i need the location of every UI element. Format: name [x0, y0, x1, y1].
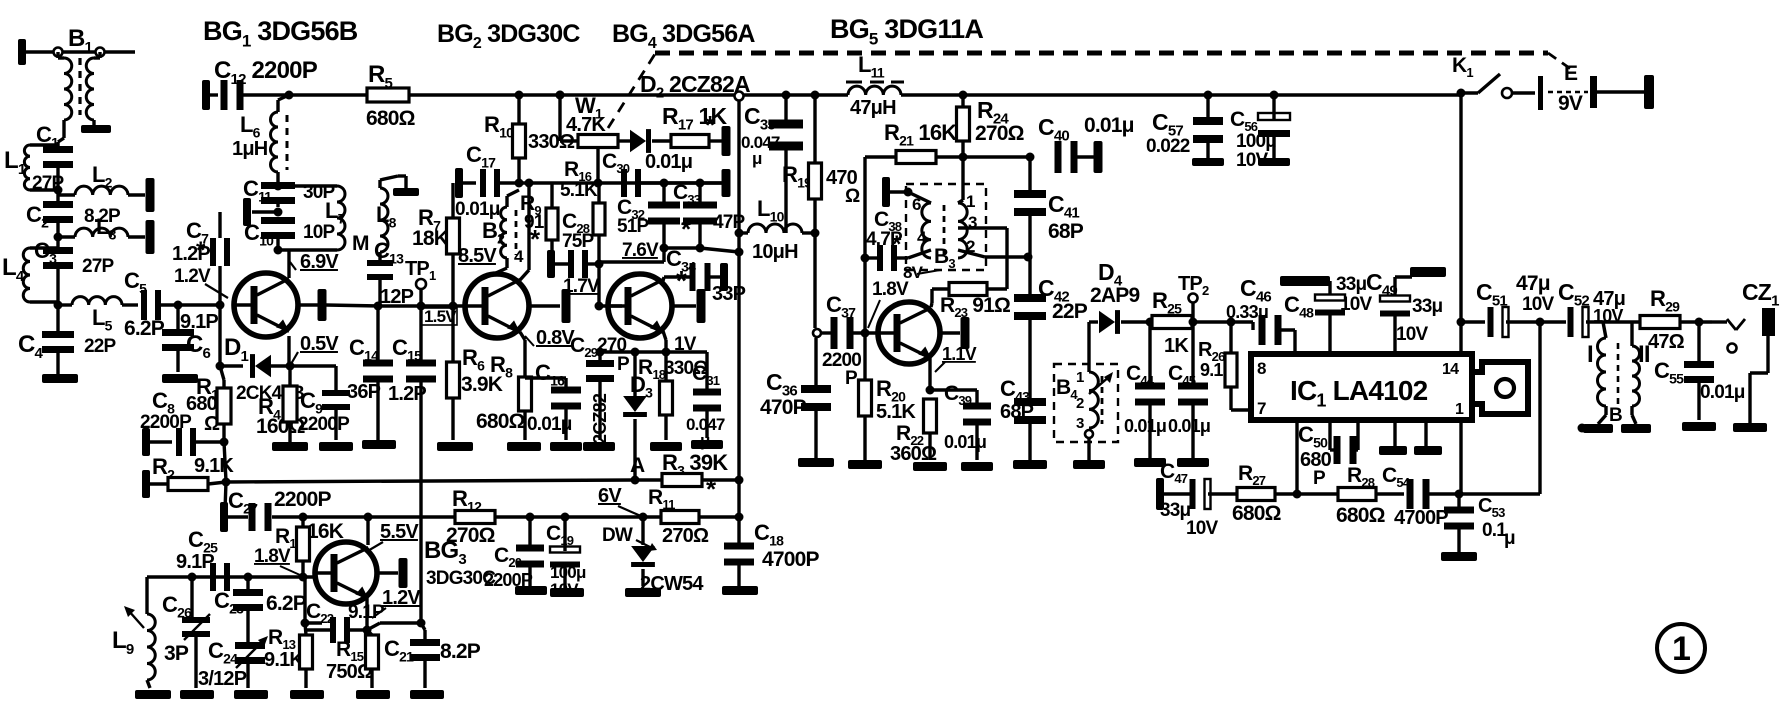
audio output wire — [1457, 318, 1466, 327]
svg-text:22P: 22P — [1052, 300, 1088, 323]
svg-text:270Ω: 270Ω — [662, 525, 709, 547]
tank bottom wire — [278, 248, 337, 251]
svg-text:9V: 9V — [1558, 92, 1583, 115]
B3 primary coil — [922, 203, 931, 258]
svg-text:4: 4 — [917, 228, 927, 247]
svg-text:270Ω: 270Ω — [446, 524, 495, 547]
svg-text:7: 7 — [1257, 399, 1266, 418]
node C32 C33 bottom — [660, 244, 669, 253]
BG5 collector wire — [931, 303, 932, 307]
BG5 emitter wire — [928, 358, 931, 390]
svg-text:2200P: 2200P — [298, 414, 350, 435]
svg-text:16K: 16K — [307, 520, 344, 543]
svg-text:0.01μ: 0.01μ — [1168, 416, 1210, 436]
svg-text:8: 8 — [1257, 359, 1266, 378]
svg-text:BG1 3DG56B: BG1 3DG56B — [203, 16, 358, 51]
ground under R8 — [507, 442, 541, 451]
svg-text:R21 16K: R21 16K — [884, 120, 957, 148]
svg-text:C12 2200P: C12 2200P — [214, 57, 318, 88]
ground under C4 — [42, 374, 78, 383]
svg-text:10V: 10V — [1396, 324, 1429, 345]
ground under R6 — [437, 442, 473, 451]
emitter row wire — [600, 350, 707, 353]
svg-text:BG2 3DG30C: BG2 3DG30C — [437, 20, 580, 52]
BG4 case terminal — [672, 304, 696, 307]
ground under C21 — [410, 690, 444, 699]
node R14 top — [299, 513, 308, 522]
svg-text:5.1K: 5.1K — [876, 401, 916, 423]
svg-text:1.8V: 1.8V — [254, 546, 291, 567]
ground under C57 — [1192, 158, 1224, 166]
node base wire C6 — [174, 301, 183, 310]
node L4/L5 — [54, 301, 63, 310]
svg-text:18K: 18K — [412, 227, 449, 250]
svg-text:1.1V: 1.1V — [942, 344, 977, 364]
ground under C18 — [722, 586, 758, 595]
svg-text:680Ω: 680Ω — [1336, 504, 1385, 527]
B3 terminal bar — [882, 177, 890, 207]
main supply rail — [455, 93, 848, 97]
BG4 collector wire — [663, 277, 664, 281]
ground under C39 — [961, 462, 993, 471]
feedback wire row — [305, 621, 322, 624]
node C19 top — [561, 513, 570, 522]
base wire BG3 — [147, 575, 314, 578]
svg-text:6.2P: 6.2P — [266, 592, 307, 615]
wire BG1 to C14 row — [326, 305, 380, 306]
node rail x739 — [735, 92, 744, 101]
ground under C20 — [515, 586, 547, 595]
transformer B4 dashed box — [1054, 364, 1118, 442]
ground under C45 — [1177, 458, 1209, 467]
svg-text:6.9V: 6.9V — [300, 251, 339, 273]
ground under C14 — [362, 440, 396, 449]
IC ground pins — [1393, 420, 1396, 446]
svg-text:9.1P: 9.1P — [176, 551, 214, 573]
svg-text:0.01μ: 0.01μ — [1700, 382, 1745, 403]
ground under R20 — [848, 460, 882, 469]
svg-text:1K: 1K — [1164, 335, 1189, 357]
node BG5 base junction — [813, 329, 821, 337]
svg-text:1: 1 — [1076, 369, 1084, 386]
node C11 C10 — [274, 208, 283, 217]
B3 pin2 wire — [958, 250, 985, 257]
ground under C16 — [550, 442, 582, 451]
svg-text:IC1 LA4102: IC1 LA4102 — [1290, 375, 1428, 411]
svg-text:DW: DW — [602, 525, 633, 546]
svg-text:33μ: 33μ — [1412, 296, 1443, 317]
svg-text:9.1K: 9.1K — [194, 455, 234, 477]
svg-text:μ: μ — [752, 149, 762, 168]
node tank top — [274, 182, 283, 191]
long vertical C15 to oscillator — [419, 306, 422, 366]
ground under C55 — [1682, 422, 1716, 431]
ground under C9 — [319, 442, 353, 451]
svg-text:4: 4 — [514, 247, 524, 266]
emitter wire BG1 — [287, 336, 290, 366]
svg-text:0.01μ: 0.01μ — [1124, 416, 1166, 436]
IC1 LA4102 box — [1251, 354, 1472, 420]
feedback vertical — [303, 577, 306, 623]
svg-text:2CZ82: 2CZ82 — [590, 393, 610, 444]
wire IF row y183 — [497, 181, 726, 184]
base vertical BG4 — [597, 264, 600, 306]
transistor BG3 — [315, 542, 377, 604]
svg-text:75P: 75P — [562, 231, 595, 252]
oscillator feed wire row — [228, 515, 248, 518]
emitter to C21 wire — [367, 623, 380, 630]
svg-text:Ω: Ω — [845, 186, 860, 207]
svg-text:BG5 3DG11A: BG5 3DG11A — [830, 14, 983, 49]
long vertical feed x739 — [737, 101, 740, 517]
svg-text:33P: 33P — [712, 283, 746, 305]
svg-text:1: 1 — [966, 192, 975, 211]
wire R21 to C40 — [963, 155, 1030, 158]
node BG3 collector top — [364, 513, 373, 522]
svg-text:P: P — [617, 354, 630, 375]
ground right output — [1733, 423, 1767, 432]
svg-text:47Ω: 47Ω — [1648, 331, 1685, 353]
collector wire BG1 — [287, 250, 290, 278]
svg-text:A: A — [630, 454, 645, 477]
svg-text:0.022: 0.022 — [1146, 136, 1190, 157]
svg-text:*: * — [676, 265, 687, 296]
svg-text:8.2P: 8.2P — [440, 640, 481, 663]
B4 top wire to D4 — [1087, 322, 1090, 372]
BG5 case terminal — [940, 331, 960, 334]
node C7 base — [216, 301, 225, 310]
ground under R15 — [356, 690, 390, 699]
node TP1 base — [417, 302, 426, 311]
node C26 branch — [188, 573, 197, 582]
ground under B1 — [81, 125, 111, 133]
ground under B5 primary — [1583, 424, 1613, 433]
svg-text:14: 14 — [1442, 361, 1459, 378]
wire base row BG2 — [380, 304, 465, 307]
speaker wire — [1712, 320, 1727, 323]
svg-text:7.6V: 7.6V — [622, 240, 659, 261]
node R1 C8 — [220, 438, 229, 447]
transistor BG1 — [234, 273, 298, 337]
node C23 branch — [244, 573, 253, 582]
svg-text:27P: 27P — [82, 256, 115, 277]
svg-text:6V: 6V — [598, 485, 622, 507]
transistor BG5 — [878, 302, 940, 364]
svg-text:33μ: 33μ — [1336, 274, 1367, 295]
ground under C6 — [162, 374, 198, 383]
ground under R4 — [272, 442, 308, 451]
svg-text:1.7V: 1.7V — [563, 276, 600, 297]
svg-text:10V: 10V — [1522, 294, 1555, 315]
B3 secondary coil — [958, 203, 967, 258]
svg-text:P: P — [845, 368, 858, 389]
B3 core — [943, 205, 946, 256]
svg-text:*: * — [196, 237, 206, 264]
node DW top — [639, 513, 648, 522]
svg-text:4.7K: 4.7K — [566, 114, 606, 136]
svg-text:M: M — [352, 232, 369, 255]
svg-text:47μH: 47μH — [850, 97, 896, 119]
IC heatsink tab — [1472, 362, 1528, 414]
wire emitter to C9 — [290, 364, 336, 367]
ground under C53 — [1441, 552, 1477, 561]
ground under C44 — [1134, 458, 1166, 467]
BG3 emitter wire — [365, 598, 368, 630]
svg-text:8.5V: 8.5V — [458, 245, 497, 267]
ground under R13 — [290, 690, 324, 699]
svg-text:3P: 3P — [164, 642, 189, 665]
R21 left vertical — [863, 157, 866, 333]
B4 core dashed — [1101, 376, 1104, 424]
supply vertical to IC pin14 — [1459, 93, 1462, 354]
svg-text:10P: 10P — [303, 222, 336, 243]
ground under C29 — [583, 442, 615, 451]
BG2 emitter wire — [520, 332, 525, 340]
svg-text:1.2V: 1.2V — [382, 587, 421, 609]
wire C32 to BG4 base — [662, 248, 665, 262]
B4 tuning arrow — [1089, 376, 1110, 394]
ground under R18 — [650, 442, 682, 451]
B3 pin3 wire — [958, 226, 1007, 229]
B4 bottom pin — [1085, 430, 1093, 438]
svg-text:68P: 68P — [1048, 220, 1084, 243]
BG3 case terminal — [377, 571, 398, 574]
wire to oscillator line — [700, 248, 739, 252]
BG3 collector wire — [366, 517, 369, 545]
svg-text:0.01μ: 0.01μ — [645, 151, 692, 173]
svg-text:5.1K: 5.1K — [560, 180, 598, 201]
svg-text:1: 1 — [1455, 401, 1464, 418]
svg-text:3/12P: 3/12P — [198, 668, 247, 690]
transformer B3 dashed box — [906, 184, 986, 270]
transistor BG4 — [608, 274, 672, 338]
svg-text:4700P: 4700P — [1394, 507, 1448, 529]
L8 top terminal — [393, 188, 419, 196]
node R7 base BG2 — [449, 302, 458, 311]
AGC wire row — [226, 480, 635, 482]
svg-text:51P: 51P — [617, 216, 650, 237]
node C20 top — [526, 513, 535, 522]
B4 coil — [1089, 372, 1098, 428]
svg-text:2: 2 — [1076, 395, 1084, 412]
wire C53 node up — [1459, 492, 1540, 495]
ground under R22 — [913, 462, 947, 471]
ground under C31 — [691, 440, 723, 449]
svg-text:270Ω: 270Ω — [975, 122, 1024, 145]
ground under C26 — [180, 690, 214, 699]
svg-text:3: 3 — [1076, 415, 1084, 432]
svg-text:B: B — [1609, 405, 1622, 426]
C41 C42 C43 vertical — [1028, 157, 1031, 192]
svg-text:I: I — [1587, 341, 1593, 368]
node rail L6 — [285, 91, 294, 100]
ground under B4 — [1073, 460, 1105, 469]
svg-text:0.01μ: 0.01μ — [455, 199, 500, 220]
svg-text:470P: 470P — [760, 396, 807, 419]
node rail x815 — [811, 91, 820, 100]
ground under C36 — [798, 458, 834, 467]
ground under C43 — [1013, 460, 1047, 469]
BG4 emitter wire — [663, 331, 666, 340]
node L1/C2 — [54, 186, 63, 195]
svg-text:E: E — [1564, 62, 1578, 85]
svg-text:P: P — [1313, 468, 1326, 489]
ground under C56 — [1258, 158, 1290, 166]
svg-text:0.01μ: 0.01μ — [944, 432, 986, 452]
BG1 case terminal — [298, 303, 318, 306]
page mark circled 1 — [1657, 624, 1705, 672]
dashed AGC line — [608, 54, 655, 128]
svg-text:1.2P: 1.2P — [172, 243, 210, 265]
detector wire row — [1089, 320, 1098, 323]
W1 wiper wire — [596, 148, 599, 183]
B3 pin1 wire from R24 — [958, 200, 963, 203]
svg-text:BG4 3DG56A: BG4 3DG56A — [612, 20, 755, 52]
svg-text:4700P: 4700P — [762, 548, 820, 571]
tank top wire — [278, 184, 337, 187]
svg-text:5.5V: 5.5V — [380, 521, 419, 543]
ground under DW — [625, 588, 661, 597]
svg-text:36P: 36P — [347, 381, 381, 403]
svg-text:0.01μ: 0.01μ — [1084, 114, 1134, 137]
ground under C24 — [234, 690, 268, 699]
svg-text:47P: 47P — [713, 212, 746, 233]
transistor BG2 — [465, 274, 529, 338]
wire B1 to tank — [58, 138, 64, 142]
BG2 collector wire — [520, 270, 529, 280]
svg-text:1: 1 — [1672, 630, 1690, 668]
node C51 C52 — [1536, 318, 1545, 327]
svg-text:47μ: 47μ — [1516, 272, 1550, 295]
svg-text:R23 91Ω: R23 91Ω — [940, 294, 1010, 320]
svg-text:1μH: 1μH — [232, 138, 268, 160]
svg-text:0.5V: 0.5V — [300, 333, 339, 355]
svg-text:1.8V: 1.8V — [872, 279, 909, 300]
svg-text:10μH: 10μH — [752, 241, 798, 263]
svg-text:22P: 22P — [84, 336, 117, 357]
volume line into IC — [1230, 320, 1253, 323]
svg-text:6.2P: 6.2P — [124, 317, 165, 340]
svg-text:μ: μ — [1504, 528, 1515, 549]
svg-text:680Ω: 680Ω — [366, 107, 415, 130]
ground under C19 — [550, 588, 584, 597]
svg-text:680Ω: 680Ω — [476, 410, 525, 433]
node C2/L3 — [54, 233, 63, 242]
BG2 case terminal — [529, 304, 560, 307]
svg-text:10V: 10V — [1186, 518, 1219, 539]
node R2 AGC wire — [222, 478, 231, 487]
wire R2 node to C27 — [225, 482, 226, 510]
ground under B5 secondary — [1621, 424, 1651, 433]
node rail x560 — [556, 91, 565, 100]
ground under L9 — [135, 690, 171, 699]
svg-text:2AP9: 2AP9 — [1090, 284, 1139, 307]
svg-text:R17 1K: R17 1K — [662, 103, 727, 134]
svg-text:2200P: 2200P — [274, 488, 332, 511]
svg-text:680Ω: 680Ω — [1232, 502, 1281, 525]
cap divider tap terminal — [252, 210, 278, 213]
